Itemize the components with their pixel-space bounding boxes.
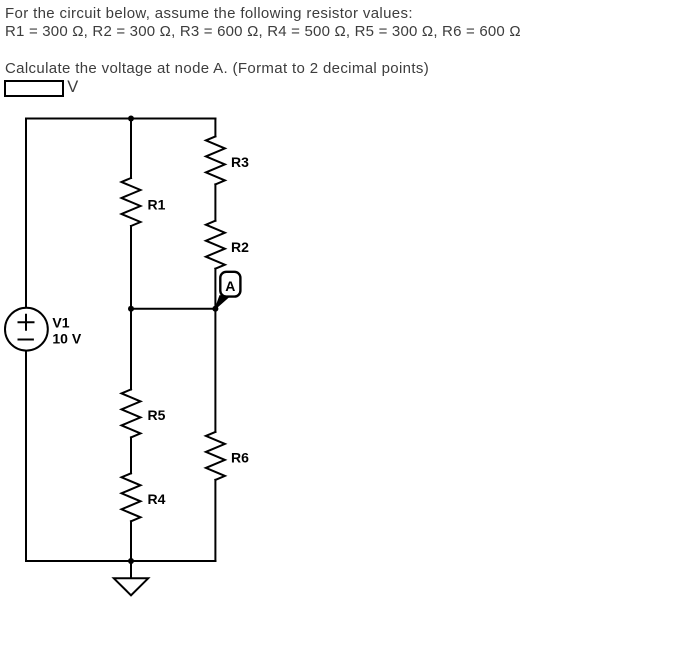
wire R1 to middle node [130,226,132,309]
question text line 2 [5,23,521,41]
resistor R6 [206,432,225,480]
junction dot top [128,116,134,122]
resistor R3 [206,136,225,184]
wire node to R6 [214,309,216,432]
wire R6 to bottom [214,480,216,561]
wire left vertical upper [25,119,27,308]
svg-text:R5: R5 [148,407,166,423]
resistor R4 [122,473,141,521]
wire R4 to bottom [130,521,132,561]
svg-text:R6: R6 [231,449,249,465]
svg-text:A: A [225,278,235,294]
question text line 3 [5,60,429,78]
question text line 1 [5,5,413,23]
svg-text:V1: V1 [52,314,69,330]
svg-text:R2: R2 [231,239,249,255]
wire top horizontal [26,118,215,120]
junction dot bottom [128,558,134,564]
wire R5 to R4 [130,437,132,473]
svg-text:R4: R4 [148,491,166,507]
node A callout tail [215,296,229,309]
wire middle node to R5 [130,309,132,390]
resistor R5 [122,389,141,437]
wire R2 to node A junction [214,269,216,309]
node A callout box [220,272,240,297]
resistor R1 [122,178,141,226]
svg-text:10 V: 10 V [52,331,81,347]
wire middle horizontal [131,308,215,310]
wire left vertical lower [25,351,27,561]
junction dot middle left [128,306,134,312]
unit label V [67,79,78,97]
svg-text:R1: R1 [148,196,166,212]
wire bottom horizontal [26,560,215,562]
junction dot node A [212,306,218,312]
ground triangle [114,578,148,595]
svg-text:R3: R3 [231,154,249,170]
V1 plus sign [19,315,34,330]
ground stub [130,561,132,578]
wire right top stub [214,119,216,137]
resistor R2 [206,221,225,269]
wire R1 top stub [130,119,132,179]
V1 minus sign [19,339,33,341]
voltage source V1 circle [5,308,48,351]
wire R3 to R2 [214,184,216,220]
answer input box [4,80,64,98]
